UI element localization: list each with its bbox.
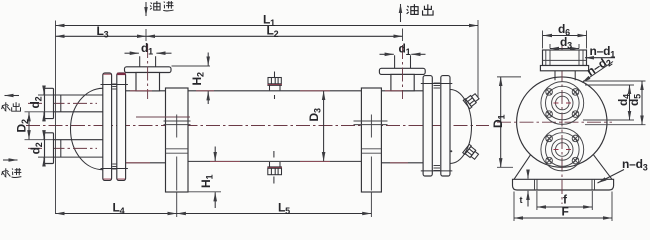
- saddle right wing: [594, 155, 613, 180]
- svg-text:D2: D2: [15, 119, 31, 132]
- water inlet nozzle pipe (bottom left): [54, 140, 103, 157]
- oil inlet nozzle centerline: [147, 44, 149, 99]
- water inlet nozzle flange: [45, 133, 54, 164]
- lower water flange cluster: [541, 128, 584, 171]
- end view horizontal centerline: [497, 121, 612, 123]
- svg-text:L5: L5: [278, 201, 290, 217]
- n-d3 leader: [598, 170, 625, 184]
- upper water flange cluster: [541, 82, 584, 125]
- D1 extension lines: [497, 77, 521, 167]
- dimension L4: [56, 213, 177, 215]
- block1 upper bolt line into channel: [136, 116, 190, 118]
- main horizontal centerline: [26, 125, 489, 127]
- head flange plate 1: [103, 73, 112, 180]
- water inlet nozzle centerline: [28, 147, 97, 149]
- shell bottom line: [188, 160, 361, 162]
- dimension D2: [28, 112, 30, 139]
- dimension L2: [146, 35, 403, 37]
- n-d1 leader: [585, 57, 615, 59]
- block1 foot step line: [166, 152, 189, 154]
- F extension lines: [514, 192, 612, 222]
- d4/d5 extension lines: [583, 81, 646, 125]
- right head top plug (45 deg): [463, 92, 480, 109]
- oil-out label: [407, 4, 418, 14]
- t dimension arrows: [527, 171, 529, 179]
- end view vertical centerline: [561, 45, 563, 204]
- dimension d3: [550, 48, 579, 50]
- left head (water box): [71, 88, 103, 169]
- shell bottom line red accents: [126, 161, 408, 162]
- svg-text:H2: H2: [190, 72, 206, 85]
- oil outlet center tick for L2: [402, 29, 404, 42]
- dimension f: [537, 206, 592, 208]
- oil-in arrow: [145, 2, 147, 16]
- right head bottom plug (45 deg): [463, 144, 480, 161]
- oil inlet nozzle neck: [136, 73, 160, 91]
- shell top line: [126, 90, 424, 92]
- saddle left wing: [514, 155, 531, 180]
- water-in label: [2, 168, 11, 177]
- water-in arrow: [3, 159, 18, 161]
- left extension line (overall length datum): [55, 21, 57, 215]
- dimension d4: [629, 85, 631, 120]
- saddle bolt slot right: [592, 179, 595, 190]
- oil inlet nozzle flange: [125, 67, 172, 73]
- dimension D3: [323, 91, 325, 161]
- oil inlet center tick for L3/L2: [145, 29, 147, 41]
- shell bottom drain plug: [267, 151, 282, 184]
- shell top line red accents: [130, 90, 402, 92]
- oil outlet nozzle flange: [379, 68, 425, 74]
- dimension H1: [214, 147, 216, 162]
- dimension d5: [641, 81, 643, 125]
- dimension L5: [177, 213, 372, 215]
- dimension L1: [56, 25, 479, 27]
- gasket lines between right flange plates top: [434, 83, 441, 88]
- dimension F: [514, 217, 612, 219]
- water-out arrow: [5, 95, 20, 97]
- d3 extension lines: [550, 44, 579, 49]
- block1 foot bolt line: [176, 157, 178, 191]
- water-out label: [2, 102, 11, 111]
- svg-text:D3: D3: [307, 108, 323, 121]
- svg-text:d1: d1: [399, 42, 411, 58]
- mounting flange block 2: [361, 88, 381, 192]
- top connection block (end view): [543, 50, 587, 66]
- mounting flange block 1: [166, 88, 189, 192]
- dimension d6: [543, 35, 587, 37]
- dimension H2: [207, 53, 209, 66]
- oil outlet nozzle bore: [395, 55, 411, 68]
- n-d2 leader: [582, 62, 613, 83]
- dimension d2 top: [43, 86, 45, 95]
- stud bolt bottom of right flange pair: [421, 170, 453, 172]
- f extension lines: [537, 191, 592, 210]
- svg-text:d1: d1: [141, 41, 153, 57]
- svg-text:d2: d2: [28, 96, 44, 108]
- gasket lines between left flange plates bottom: [112, 164, 116, 169]
- svg-text:t: t: [520, 195, 523, 205]
- svg-text:D1: D1: [491, 115, 507, 128]
- dimension D1: [500, 77, 502, 167]
- right flange plate 1: [423, 76, 432, 176]
- right flange plate 2: [441, 76, 450, 176]
- block2 foot step line: [361, 152, 381, 154]
- block1 foot upper line: [166, 148, 189, 150]
- extension ticks for d2/D2: [25, 95, 54, 157]
- stud bolt top of left flange pair: [101, 84, 128, 86]
- oil-out arrow: [400, 4, 402, 22]
- dimension d1 left: [125, 52, 139, 54]
- red tint marks on left flange: [103, 74, 125, 179]
- block inner lines: [546, 50, 583, 66]
- right channel bottom line: [381, 162, 423, 164]
- end view saddle base: [513, 179, 614, 190]
- block2 foot bolt line: [370, 157, 372, 191]
- oil outlet nozzle neck: [391, 74, 414, 90]
- H1 reference line: [188, 191, 221, 193]
- dimension d1 right: [380, 53, 394, 55]
- drain dot on right head: [450, 150, 452, 152]
- right head (return bonnet): [450, 90, 472, 164]
- left channel bottom line: [126, 162, 166, 164]
- saddle bolt slot left: [535, 179, 538, 190]
- svg-text:n–d3: n–d3: [622, 157, 648, 173]
- block2 stud bolt lines: [354, 121, 388, 125]
- right extension line (L1 end): [477, 20, 479, 98]
- H2 reference line: [172, 65, 211, 67]
- dimension L3: [56, 35, 147, 37]
- L4/L5 extension from block1: [176, 192, 178, 217]
- top connection flange (end view): [540, 66, 588, 71]
- svg-text:H1: H1: [199, 175, 215, 188]
- oil outlet nozzle centerline: [402, 45, 404, 99]
- svg-text:F: F: [562, 205, 569, 219]
- oil-in label: [150, 1, 160, 10]
- end view shell circle: [517, 77, 607, 167]
- block2 foot upper line: [361, 148, 381, 150]
- d6 extension lines: [543, 31, 587, 49]
- top connection neck (end view): [555, 71, 575, 81]
- block lower inner line: [543, 59, 587, 61]
- L5 extension from block2: [370, 192, 372, 217]
- water outlet nozzle pipe (top left): [54, 95, 103, 112]
- dimension d2 bottom: [43, 131, 45, 140]
- svg-text:d2: d2: [29, 142, 45, 154]
- head flange plate 2: [117, 73, 126, 180]
- svg-text:L3: L3: [97, 24, 109, 40]
- block1 stud bolt lines: [164, 121, 191, 125]
- shell top vent plug: [267, 72, 282, 100]
- block1 bolt centerline: [176, 115, 178, 138]
- stud bolt bottom of left flange pair: [101, 168, 128, 170]
- gasket lines between right flange plates bottom: [434, 166, 441, 171]
- stud bolt top of right flange pair: [421, 83, 453, 85]
- svg-text:d3: d3: [560, 35, 572, 51]
- water outlet nozzle flange: [45, 88, 54, 118]
- block2 bolt centerline: [370, 115, 372, 138]
- svg-text:n–d1: n–d1: [590, 44, 616, 60]
- svg-text:L4: L4: [113, 201, 125, 217]
- gasket lines between left flange plates top: [112, 84, 116, 89]
- oil inlet nozzle bore: [140, 56, 156, 67]
- water outlet nozzle centerline: [28, 102, 97, 104]
